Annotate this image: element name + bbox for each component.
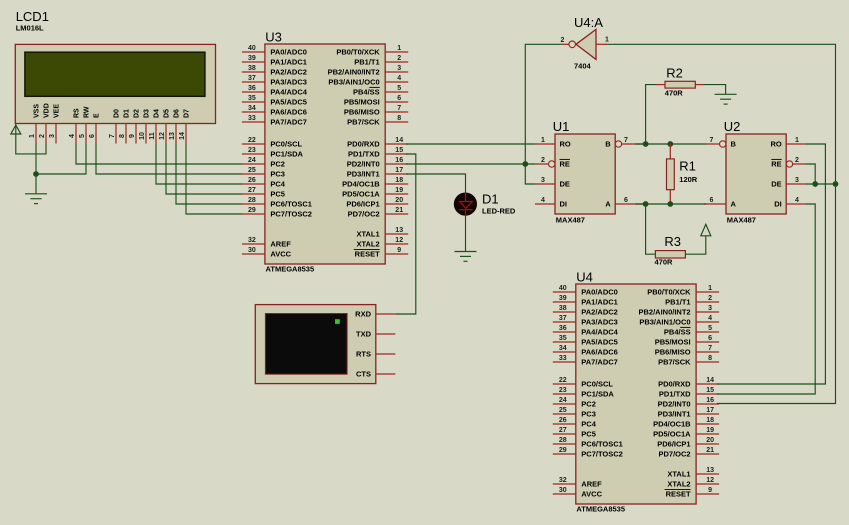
LCD1 pin 7 (D0)	[109, 109, 121, 144]
svg-text:4: 4	[69, 134, 76, 138]
svg-text:2: 2	[541, 157, 545, 164]
svg-text:1: 1	[795, 137, 799, 144]
svg-text:PD0/RXD: PD0/RXD	[658, 380, 691, 389]
svg-text:PD6/ICP1: PD6/ICP1	[346, 200, 379, 209]
inverter U4:A reference label	[574, 15, 603, 30]
svg-text:RESET: RESET	[355, 250, 380, 259]
svg-text:PD1/TXD: PD1/TXD	[659, 390, 691, 399]
svg-text:36: 36	[248, 85, 256, 92]
svg-text:PD6/ICP1: PD6/ICP1	[657, 440, 690, 449]
wire U4:A input to U4 PD2/INT0	[608, 44, 836, 403]
svg-text:CTS: CTS	[356, 370, 371, 379]
svg-text:1: 1	[397, 45, 401, 52]
svg-text:16: 16	[395, 157, 403, 164]
U3 pin 35 (PA5/ADC5)	[242, 95, 307, 106]
wire VSS: LCD pin1 down to ground node	[35, 144, 37, 175]
svg-text:13: 13	[169, 132, 176, 140]
svg-text:16: 16	[706, 397, 714, 404]
svg-text:PC0/SCL: PC0/SCL	[270, 140, 302, 149]
svg-text:LED-RED: LED-RED	[482, 206, 516, 215]
svg-text:37: 37	[559, 315, 567, 322]
U4 pin 25 (PC3)	[553, 407, 596, 418]
svg-text:5: 5	[397, 85, 401, 92]
svg-text:PC3: PC3	[270, 170, 285, 179]
svg-text:470R: 470R	[655, 258, 674, 267]
svg-text:28: 28	[559, 437, 567, 444]
svg-text:10: 10	[139, 132, 146, 140]
U4 pin 40 (PA0/ADC0)	[553, 285, 618, 296]
svg-text:22: 22	[248, 137, 256, 144]
svg-text:ATMEGA8535: ATMEGA8535	[576, 504, 625, 513]
LCD1 pin 10 (D3)	[139, 109, 151, 144]
U3 pin 15 (PD1/TXD)	[348, 147, 408, 158]
wire B node up to R2	[646, 85, 665, 144]
svg-text:23: 23	[559, 387, 567, 394]
svg-text:1: 1	[605, 37, 609, 44]
transceiver U1 reference label	[553, 119, 570, 134]
LCD1 pin 12 (D5)	[159, 109, 171, 144]
svg-text:PB2/AIN0/INT2: PB2/AIN0/INT2	[328, 68, 380, 77]
svg-text:6: 6	[397, 95, 401, 102]
svg-text:22: 22	[559, 377, 567, 384]
microcontroller U3 body (ATMEGA8535)	[265, 44, 385, 264]
svg-text:11: 11	[149, 132, 156, 140]
svg-text:B: B	[731, 140, 737, 149]
svg-text:3: 3	[541, 177, 545, 184]
U3 pin 38 (PA2/ADC2)	[242, 65, 307, 76]
U3 pin 21 (PD7/OC2)	[348, 207, 409, 218]
junction node A/R1	[667, 201, 673, 207]
resistor R3 body	[655, 251, 685, 258]
U4 pin 34 (PA6/ADC6)	[553, 345, 618, 356]
svg-text:20: 20	[706, 437, 714, 444]
wire net TXD1: U3 PD1/TXD to terminal RXD	[395, 154, 416, 314]
LCD1 pin 3 (VEE)	[49, 104, 61, 144]
LCD1 pin 13 (D6)	[169, 109, 181, 144]
svg-text:4: 4	[541, 197, 545, 204]
transceiver U1 value label MAX487	[556, 216, 585, 225]
svg-text:PB3/AIN1/OC0: PB3/AIN1/OC0	[639, 318, 690, 327]
svg-text:A: A	[605, 200, 611, 209]
svg-text:19: 19	[395, 187, 403, 194]
svg-text:PB7/SCK: PB7/SCK	[347, 118, 380, 127]
svg-text:PC7/TOSC2: PC7/TOSC2	[581, 450, 623, 459]
LED D1 value label LED-RED	[482, 206, 516, 215]
svg-text:12: 12	[706, 477, 714, 484]
power terminal (VCC arrow) at R3	[701, 224, 711, 235]
U3 pin 28 (PC6/TOSC1)	[242, 197, 312, 208]
U1 pin 6 (A)	[605, 197, 643, 209]
svg-text:XTAL1: XTAL1	[356, 230, 379, 239]
svg-text:MAX487: MAX487	[727, 216, 756, 225]
svg-text:PA4/ADC4: PA4/ADC4	[581, 328, 618, 337]
svg-text:PC3: PC3	[581, 410, 596, 419]
svg-text:XTAL2: XTAL2	[356, 240, 379, 249]
svg-text:7404: 7404	[574, 61, 592, 70]
svg-text:PA1/ADC1: PA1/ADC1	[581, 298, 618, 307]
inverter U4:A value label 7404	[574, 61, 592, 70]
ground symbol at R2	[715, 94, 737, 104]
svg-text:R1: R1	[679, 158, 696, 173]
U4 pin 3 (PB2/AIN0/INT2)	[638, 305, 719, 316]
svg-text:PD4/OC1B: PD4/OC1B	[342, 180, 380, 189]
U4 pin 20 (PD6/ICP1)	[657, 437, 719, 448]
svg-text:21: 21	[706, 447, 714, 454]
terminal pin CTS	[356, 370, 395, 379]
transceiver U2 value label MAX487	[727, 216, 756, 225]
svg-text:PA5/ADC5: PA5/ADC5	[270, 98, 307, 107]
svg-text:470R: 470R	[665, 89, 684, 98]
svg-text:34: 34	[248, 105, 256, 112]
power terminal (VDD arrow) at LCD	[11, 125, 21, 134]
U4 pin 26 (PC4)	[553, 417, 597, 428]
resistor R1 body	[667, 159, 675, 190]
svg-text:40: 40	[559, 285, 567, 292]
U4 pin 18 (PD4/OC1B)	[653, 417, 719, 428]
svg-text:19: 19	[706, 427, 714, 434]
svg-text:8: 8	[397, 115, 401, 122]
svg-text:E: E	[94, 113, 101, 118]
LCD1 pin 1 (VSS)	[29, 104, 41, 144]
svg-text:PA2/ADC2: PA2/ADC2	[270, 68, 307, 77]
svg-text:R3: R3	[664, 234, 681, 249]
svg-text:PC4: PC4	[270, 180, 285, 189]
svg-text:36: 36	[559, 325, 567, 332]
svg-text:VEE: VEE	[54, 104, 61, 118]
junction node A/R3	[643, 201, 649, 207]
svg-text:D5: D5	[164, 109, 171, 118]
ground symbol at LCD	[25, 194, 47, 204]
LCD1 pin 4 (RS)	[69, 108, 81, 144]
svg-text:39: 39	[559, 295, 567, 302]
U4 pin 17 (PD3/INT1)	[658, 407, 719, 418]
U4 pin 36 (PA4/ADC4)	[553, 325, 619, 336]
svg-text:26: 26	[559, 417, 567, 424]
svg-text:RESET: RESET	[666, 490, 691, 499]
svg-text:PB1/T1: PB1/T1	[665, 298, 690, 307]
wire U4:A output to DIR1 node and U1 DE	[525, 44, 561, 184]
LCD LCD1 value label LM016L	[16, 23, 44, 32]
svg-text:RO: RO	[560, 140, 571, 149]
svg-text:LM016L: LM016L	[16, 23, 44, 32]
svg-text:7: 7	[710, 137, 714, 144]
svg-text:PC7/TOSC2: PC7/TOSC2	[270, 210, 312, 219]
U3 pin 7 (PB6/MISO)	[344, 105, 408, 116]
wire D6: LCD pin13 to U3 PC6	[176, 144, 242, 205]
svg-text:U4: U4	[576, 270, 593, 285]
svg-text:PD2/INT0: PD2/INT0	[658, 400, 691, 409]
svg-text:XTAL2: XTAL2	[667, 480, 690, 489]
svg-text:PC0/SCL: PC0/SCL	[581, 380, 613, 389]
svg-text:XTAL1: XTAL1	[667, 470, 690, 479]
svg-text:12: 12	[159, 132, 166, 140]
LCD1 pin 9 (D2)	[129, 109, 141, 144]
U1 pin 4 (DI)	[535, 197, 567, 209]
svg-text:A: A	[731, 200, 737, 209]
U3 pin 1 (PB0/T0/XCK)	[336, 45, 408, 56]
U3 pin 29 (PC7/TOSC2)	[242, 207, 312, 218]
svg-text:PC1/SDA: PC1/SDA	[270, 150, 303, 159]
svg-text:RE: RE	[771, 160, 781, 169]
LED D1 reference label	[482, 191, 499, 206]
junction node DE/inverter input	[833, 181, 839, 187]
wire net DIR2: U2 DE to U4:A input net	[806, 183, 836, 185]
LCD LCD1 reference label	[16, 9, 49, 24]
LCD1 pin 6 (E)	[89, 113, 101, 144]
svg-text:3: 3	[397, 65, 401, 72]
svg-text:14: 14	[179, 132, 186, 140]
svg-text:23: 23	[248, 147, 256, 154]
wire net DIR1: U3 PD2/INT0 to U1 RE	[406, 163, 535, 165]
U3 pin 33 (PA7/ADC7)	[242, 115, 307, 126]
wire net RXD2: U2 RO to U4 PD0/RXD	[717, 144, 825, 384]
svg-text:PB6/MISO: PB6/MISO	[655, 348, 691, 357]
microcontroller U3 reference label	[265, 30, 282, 45]
svg-text:34: 34	[559, 345, 567, 352]
svg-text:RO: RO	[770, 140, 781, 149]
svg-text:18: 18	[395, 177, 403, 184]
virtual terminal body	[255, 305, 375, 384]
svg-text:3: 3	[795, 177, 799, 184]
resistor R3 value label 470R	[655, 258, 674, 267]
transceiver U1 body (MAX487)	[555, 134, 615, 214]
svg-text:D6: D6	[174, 109, 181, 118]
svg-text:DE: DE	[560, 180, 570, 189]
svg-text:35: 35	[559, 335, 567, 342]
U4 pin 32 (AREF)	[553, 477, 602, 488]
U3 pin 20 (PD6/ICP1)	[346, 197, 408, 208]
svg-text:LCD1: LCD1	[16, 9, 49, 24]
wire net TXD2: U2 DI to U4 PD1/TXD	[717, 204, 815, 394]
svg-text:25: 25	[248, 167, 256, 174]
svg-text:PA7/ADC7: PA7/ADC7	[270, 118, 307, 127]
svg-text:PB4/SS: PB4/SS	[353, 88, 380, 97]
wire R1 down to A node	[669, 190, 671, 204]
svg-text:2: 2	[397, 55, 401, 62]
svg-text:25: 25	[559, 407, 567, 414]
svg-text:B: B	[605, 140, 611, 149]
U1 pin 2 (RE)	[535, 157, 570, 169]
svg-text:24: 24	[559, 397, 567, 404]
wire VDD: LCD pin2 to power terminal	[16, 124, 46, 154]
resistor R3 reference label	[664, 234, 681, 249]
wire R2 to ground	[695, 85, 725, 95]
U3 pin 8 (PB7/SCK)	[347, 115, 408, 126]
U4 pin 14 (PD0/RXD)	[658, 377, 719, 388]
U3 pin 30 (AVCC)	[242, 247, 292, 258]
LCD1 pin 8 (D1)	[119, 109, 131, 144]
svg-text:PD2/INT0: PD2/INT0	[347, 160, 380, 169]
U4 pin 16 (PD2/INT0)	[658, 397, 719, 408]
wire ground node to ground symbol	[35, 174, 37, 194]
inverter U4:A body (7404)	[569, 29, 596, 59]
svg-text:5: 5	[708, 325, 712, 332]
svg-text:PC1/SDA: PC1/SDA	[581, 390, 614, 399]
wire E: LCD pin6 to U3 PC3	[96, 144, 242, 175]
U4 pin 23 (PC1/SDA)	[553, 387, 615, 398]
svg-text:5: 5	[79, 134, 86, 138]
svg-text:14: 14	[706, 377, 714, 384]
svg-text:2: 2	[708, 295, 712, 302]
svg-text:PA2/ADC2: PA2/ADC2	[581, 308, 618, 317]
svg-text:DI: DI	[774, 200, 782, 209]
junction node at LCD ground	[33, 171, 39, 177]
svg-text:18: 18	[706, 417, 714, 424]
svg-text:U4:A: U4:A	[574, 15, 603, 30]
junction node RE/DE	[812, 181, 818, 187]
svg-text:PB7/SCK: PB7/SCK	[658, 358, 691, 367]
svg-text:TXD: TXD	[356, 330, 372, 339]
svg-text:MAX487: MAX487	[556, 216, 585, 225]
U2 pin 4 (DI)	[774, 197, 806, 209]
svg-text:20: 20	[395, 197, 403, 204]
svg-text:9: 9	[397, 247, 401, 254]
svg-text:35: 35	[248, 95, 256, 102]
svg-text:21: 21	[395, 207, 403, 214]
wire D4: LCD pin11 to U3 PC4	[156, 144, 242, 185]
LCD LCD1 body	[15, 44, 215, 123]
microcontroller U4 value label ATMEGA8535	[576, 504, 625, 513]
U4 pin 21 (PD7/OC2)	[658, 447, 719, 458]
transceiver U2 reference label	[724, 119, 741, 134]
svg-text:6: 6	[708, 335, 712, 342]
svg-text:VDD: VDD	[44, 103, 51, 118]
U3 pin 17 (PD3/INT1)	[347, 167, 408, 178]
LCD1 pin 5 (RW)	[79, 106, 91, 143]
svg-text:39: 39	[248, 55, 256, 62]
wire net RXD1: U3 PD0/RXD to U1 RO	[406, 143, 535, 145]
U4 pin 38 (PA2/ADC2)	[553, 305, 618, 316]
wire B node down to R1	[669, 144, 671, 159]
svg-text:RS: RS	[74, 108, 81, 118]
svg-text:PD7/OC2: PD7/OC2	[348, 210, 380, 219]
U4 pin 28 (PC6/TOSC1)	[553, 437, 623, 448]
U3 pin 9 (RESET)	[354, 247, 409, 258]
U3 pin 25 (PC3)	[242, 167, 285, 178]
svg-text:33: 33	[559, 355, 567, 362]
U4 pin 7 (PB6/MISO)	[655, 345, 719, 356]
svg-text:7: 7	[397, 105, 401, 112]
wire D5: LCD pin12 to U3 PC5	[166, 144, 242, 195]
svg-text:PA6/ADC6: PA6/ADC6	[270, 108, 307, 117]
svg-text:30: 30	[559, 487, 567, 494]
svg-text:PB5/MOSI: PB5/MOSI	[344, 98, 380, 107]
U4 pin 29 (PC7/TOSC2)	[553, 447, 623, 458]
resistor R2 body	[665, 81, 695, 88]
svg-text:PC6/TOSC1: PC6/TOSC1	[581, 440, 623, 449]
svg-text:120R: 120R	[679, 175, 698, 184]
svg-text:6: 6	[624, 197, 628, 204]
U3 pin 37 (PA3/ADC3)	[242, 75, 307, 86]
svg-text:PB0/T0/XCK: PB0/T0/XCK	[336, 48, 380, 57]
resistor R1 reference label	[679, 158, 696, 173]
U4 pin 37 (PA3/ADC3)	[553, 315, 618, 326]
U3 pin 36 (PA4/ADC4)	[242, 85, 308, 96]
U4 pin 12 (XTAL2)	[667, 477, 719, 488]
U4 pin 2 (PB1/T1)	[665, 295, 719, 306]
svg-text:PA7/ADC7: PA7/ADC7	[581, 358, 618, 367]
U4 pin 4 (PB3/AIN1/OC0)	[639, 315, 719, 326]
U4 pin 27 (PC5)	[553, 427, 596, 438]
svg-text:3: 3	[49, 134, 56, 138]
svg-text:28: 28	[248, 197, 256, 204]
svg-text:PD1/TXD: PD1/TXD	[348, 150, 380, 159]
U4 pin 39 (PA1/ADC1)	[553, 295, 618, 306]
U3 pin 16 (PD2/INT0)	[347, 157, 408, 168]
svg-text:PA0/ADC0: PA0/ADC0	[581, 288, 618, 297]
svg-text:R2: R2	[666, 65, 683, 80]
U3 pin 6 (PB5/MOSI)	[344, 95, 408, 106]
svg-text:1: 1	[29, 134, 36, 138]
svg-text:PD4/OC1B: PD4/OC1B	[653, 420, 691, 429]
svg-text:AVCC: AVCC	[581, 490, 602, 499]
svg-text:D3: D3	[144, 109, 151, 118]
svg-text:AVCC: AVCC	[270, 250, 291, 259]
U3 pin 27 (PC5)	[242, 187, 285, 198]
wire U2 RE down to DE net	[806, 164, 815, 184]
svg-text:26: 26	[248, 177, 256, 184]
U3 pin 39 (PA1/ADC1)	[242, 55, 307, 66]
svg-text:PD3/INT1: PD3/INT1	[658, 410, 691, 419]
svg-text:U2: U2	[724, 119, 741, 134]
svg-text:7: 7	[624, 137, 628, 144]
U3 pin 40 (PA0/ADC0)	[242, 45, 307, 56]
svg-text:29: 29	[559, 447, 567, 454]
junction node B/R1	[667, 141, 673, 147]
svg-text:PB6/MISO: PB6/MISO	[344, 108, 380, 117]
wire D7: LCD pin14 to U3 PC7	[186, 144, 242, 215]
U3 pin 14 (PD0/RXD)	[347, 137, 408, 148]
svg-text:DI: DI	[560, 200, 568, 209]
junction node B/R2	[643, 141, 649, 147]
svg-text:38: 38	[248, 65, 256, 72]
svg-text:9: 9	[708, 487, 712, 494]
svg-text:9: 9	[129, 134, 136, 138]
svg-text:D2: D2	[134, 109, 141, 118]
svg-text:D1: D1	[124, 109, 131, 118]
svg-text:PD7/OC2: PD7/OC2	[658, 450, 690, 459]
svg-text:7: 7	[708, 345, 712, 352]
LCD1 pin 2 (VDD)	[39, 103, 51, 143]
svg-text:PA5/ADC5: PA5/ADC5	[581, 338, 618, 347]
svg-text:PB0/T0/XCK: PB0/T0/XCK	[647, 288, 691, 297]
svg-text:15: 15	[395, 147, 403, 154]
svg-text:32: 32	[559, 477, 567, 484]
U4 pin 1 (PB0/T0/XCK)	[647, 285, 719, 296]
U4:A pin 2 (output stub)	[561, 37, 569, 45]
svg-text:37: 37	[248, 75, 256, 82]
svg-text:RW: RW	[84, 106, 91, 118]
svg-text:PA3/ADC3: PA3/ADC3	[270, 78, 307, 87]
svg-text:D1: D1	[482, 191, 499, 206]
U4 pin 5 (PB4/SS)	[664, 325, 719, 336]
U3 pin 22 (PC0/SCL)	[242, 137, 303, 148]
U3 pin 3 (PB2/AIN0/INT2)	[328, 65, 409, 76]
svg-text:3: 3	[708, 305, 712, 312]
terminal pin TXD	[356, 330, 395, 339]
transceiver U2 body (MAX487)	[726, 134, 786, 214]
terminal pin RTS	[356, 350, 395, 359]
svg-text:40: 40	[248, 45, 256, 52]
svg-text:PC2: PC2	[270, 160, 285, 169]
wire RS: LCD pin4 to U3 PC2	[76, 144, 242, 165]
U3 pin 19 (PD5/OC1A)	[342, 187, 408, 198]
U3 pin 4 (PB3/AIN1/OC0)	[328, 75, 408, 86]
U3 pin 5 (PB4/SS)	[353, 85, 408, 96]
svg-text:U1: U1	[553, 119, 570, 134]
U4 pin 22 (PC0/SCL)	[553, 377, 614, 388]
svg-text:PA0/ADC0: PA0/ADC0	[270, 48, 307, 57]
